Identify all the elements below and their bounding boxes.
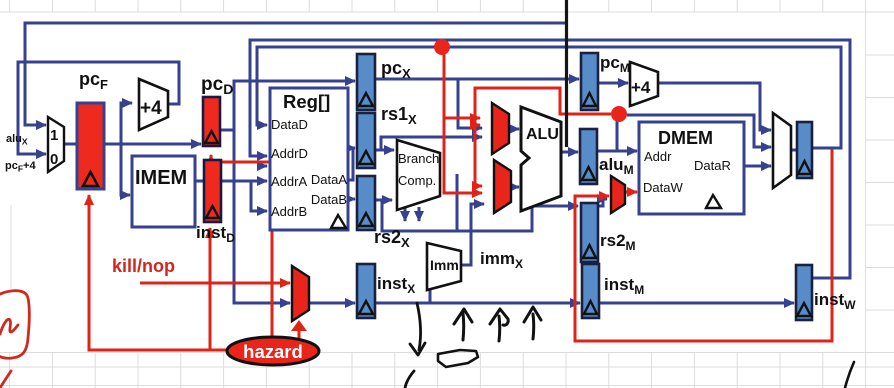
wire rs1_X out to Branch Comp xyxy=(375,149,394,152)
svg-text:DataA: DataA xyxy=(311,172,347,187)
ink red box with r (left margin note) xyxy=(0,291,29,388)
ink black vertical line (annotation) xyxy=(565,0,568,147)
register W (writeback data) xyxy=(797,122,812,178)
register inst_W xyxy=(796,265,812,320)
wire Branch Comp output taken xyxy=(404,207,407,221)
adder +4 M xyxy=(630,62,658,106)
wire ALU mux B out to ALU xyxy=(511,186,519,189)
wire DMEM DataR to WB mux xyxy=(744,165,771,168)
ink red diagonal bottom-left xyxy=(0,371,11,388)
svg-text:Reg[]: Reg[] xyxy=(283,91,330,112)
wire hazard select up to mux F xyxy=(298,331,301,338)
svg-text:DataR: DataR xyxy=(694,158,731,173)
wire alu_X feedback: top horizontal into mux F input 1 xyxy=(25,23,566,125)
register pc_D (red) xyxy=(203,97,220,146)
mux F pc select xyxy=(48,117,64,172)
wire Reg DataA to rs1_X xyxy=(348,148,355,180)
register pc_X xyxy=(357,54,375,110)
block Branch Comp. xyxy=(397,140,440,210)
wire Imm out up to ALU mux B xyxy=(461,204,484,265)
wire W writeback instruction (top A): inst_W out, up right side, top, down to AddrD xyxy=(250,40,850,278)
wire inst_M out to inst_W xyxy=(599,302,794,305)
wire ALU out to alu_M xyxy=(561,151,578,154)
hazard oval xyxy=(227,337,319,365)
wire hazard to pc_D bubble xyxy=(211,155,272,340)
svg-text:DataW: DataW xyxy=(643,180,683,195)
wire inst_X out to inst_M xyxy=(375,302,580,305)
svg-text:+4: +4 xyxy=(140,98,162,119)
wire pc_X branch down to ALU mux A xyxy=(458,79,482,128)
adder +4 F xyxy=(139,79,168,130)
wire pc_D branch down to mux F xyxy=(234,81,290,303)
wire +4M out to WB mux xyxy=(658,83,771,130)
block Imm xyxy=(427,243,461,290)
wire hazard bottom bus to pc_F and inst_D xyxy=(89,195,229,350)
register rs1_X xyxy=(357,113,375,168)
block DMEM xyxy=(639,122,744,214)
wire alu_M out to DMEM Addr xyxy=(597,150,637,153)
svg-text:AddrD: AddrD xyxy=(271,146,308,161)
wire rs2_X out to Branch Comp xyxy=(375,199,392,202)
wire IMEM out to inst_D xyxy=(195,180,204,183)
wire mux F to pc_F xyxy=(64,143,77,146)
register inst_D (red) xyxy=(204,160,221,222)
wire pc_F out branch down to IMEM Addr xyxy=(121,144,130,195)
mux DataW forward (red) xyxy=(611,176,625,213)
svg-text:AddrA: AddrA xyxy=(271,174,307,189)
wire DataW mux out to DMEM DataW xyxy=(625,191,637,194)
svg-text:Branch: Branch xyxy=(398,151,439,166)
wire W result forward: tap at W out, down, along bottom, up to DataW mux xyxy=(575,149,832,341)
svg-text:AddrB: AddrB xyxy=(271,204,307,219)
svg-text:Addr: Addr xyxy=(644,149,672,164)
wire M forward from dot2 to ALU muxes xyxy=(475,88,611,186)
wire WB mux to W reg xyxy=(791,149,797,152)
svg-text:hazard: hazard xyxy=(243,341,303,362)
ink up arrow 3 xyxy=(532,314,536,339)
svg-text:Comp.: Comp. xyxy=(398,173,436,188)
svg-text:DataB: DataB xyxy=(311,192,347,207)
wire stub junction above rs2 bus xyxy=(456,174,459,231)
register pc_M xyxy=(581,53,598,110)
register rs2_X xyxy=(357,176,375,230)
junction dot2 on alu_M bypass xyxy=(611,106,627,122)
ink slash bottom right xyxy=(845,362,854,388)
mux WB result xyxy=(773,113,791,188)
wire W writeback data (top B): W reg out, up right side, top, down to DataD xyxy=(257,47,841,148)
register inst_M xyxy=(582,264,599,318)
wire WB forward drop from dot1 to ALU muxes xyxy=(444,52,482,193)
wire pc_M out to +4M xyxy=(598,82,628,85)
mux forward A (red) xyxy=(492,103,509,154)
wire inst_D branch to Reg AddrB xyxy=(251,181,267,211)
register inst_X xyxy=(357,264,375,318)
svg-text:ALU: ALU xyxy=(526,126,559,143)
wire inst_X to Imm input xyxy=(429,289,432,303)
mux forward B (red) xyxy=(494,160,511,213)
op ALU U1 xyxy=(521,107,561,211)
register alu_M xyxy=(580,129,597,184)
wire ALU mux A out to ALU xyxy=(509,128,519,131)
wire mux F out to inst_X xyxy=(309,302,355,305)
ink up arrow 2 xyxy=(498,316,502,341)
ink down arrow xyxy=(417,303,420,350)
wire pc_F+4 loop: +4F output up over to mux F input 0 xyxy=(18,62,179,154)
register pc_F (red) xyxy=(77,103,104,189)
junction dot1 on WB data wire xyxy=(434,39,450,55)
ink blob oval xyxy=(438,350,478,367)
wire rs1_X branch up over Branch Comp to ALU mux A xyxy=(381,137,482,150)
wire inst_D out to Reg AddrA xyxy=(221,180,267,183)
wire Branch Comp output eq xyxy=(418,207,421,221)
block Reg[] xyxy=(270,88,348,230)
wire pc_F out branch to +4F input xyxy=(121,103,132,144)
wire junction dot2 drop to alu_M out xyxy=(616,120,619,151)
wire rs2_M out up to DataW mux xyxy=(597,199,607,206)
wire stub arrow at Reg left under kill line xyxy=(258,165,267,168)
svg-text:DMEM: DMEM xyxy=(658,128,713,148)
ink up arrow 1 xyxy=(462,313,466,340)
wire pc_X out to pc_M xyxy=(375,78,579,81)
svg-text:1: 1 xyxy=(50,127,58,144)
block IMEM xyxy=(132,156,195,227)
wire rs2_X branch down to rs2_M xyxy=(382,200,578,231)
mux inst kill (red) xyxy=(292,266,309,321)
wire kill/nop into mux F xyxy=(140,282,290,285)
svg-text:0: 0 xyxy=(50,151,58,168)
register rs2_M xyxy=(581,203,598,262)
wire pc_F out to pc_D xyxy=(104,143,201,146)
svg-text:DataD: DataD xyxy=(271,117,308,132)
svg-text:IMEM: IMEM xyxy=(135,167,187,189)
wire alu_M bypass to WB mux xyxy=(627,115,771,147)
ink parenthesis xyxy=(405,371,414,388)
svg-text:+4: +4 xyxy=(631,78,651,97)
svg-text:Imm: Imm xyxy=(430,257,459,273)
wire pc_D out to pc_X xyxy=(220,81,355,130)
wire Reg DataB to rs2_X xyxy=(348,198,355,201)
svg-text:kill/nop: kill/nop xyxy=(112,256,175,276)
